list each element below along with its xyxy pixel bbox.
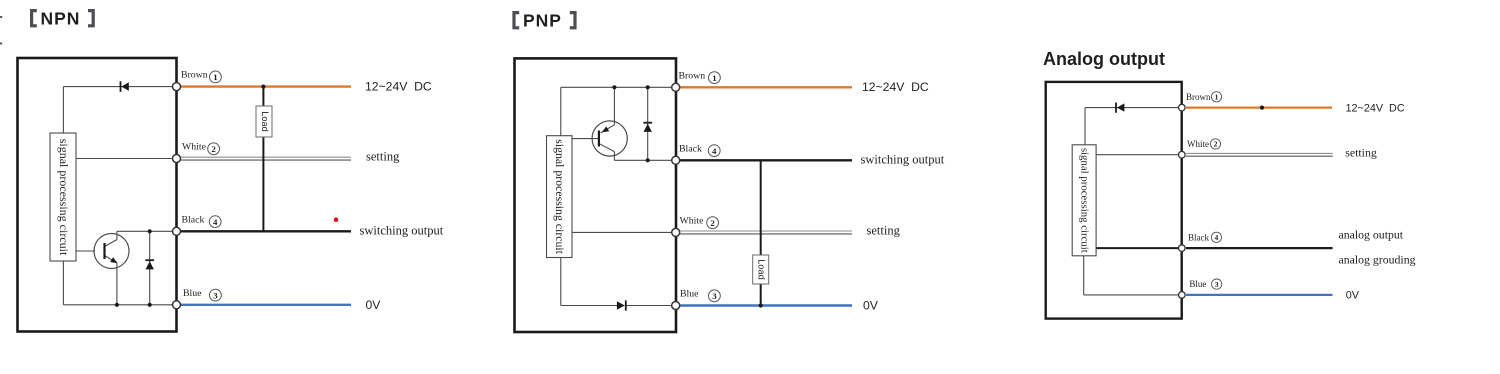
svg-text:0V: 0V — [863, 299, 879, 313]
svg-text:1: 1 — [213, 72, 217, 82]
svg-text:3: 3 — [1215, 280, 1219, 289]
svg-text:Black: Black — [182, 214, 205, 225]
svg-text:signal processing circuit: signal processing circuit — [1078, 148, 1090, 253]
svg-text:1: 1 — [1215, 93, 1219, 102]
svg-text:Black: Black — [1188, 232, 1209, 242]
svg-text:0V: 0V — [366, 298, 382, 312]
svg-text:Brown: Brown — [679, 70, 706, 81]
svg-text:setting: setting — [366, 150, 400, 164]
svg-text:Blue: Blue — [680, 289, 699, 300]
svg-text:NPN: NPN — [41, 9, 81, 29]
svg-text:1: 1 — [712, 73, 716, 83]
svg-text:12~24V DC: 12~24V DC — [365, 79, 432, 93]
svg-text:setting: setting — [867, 224, 901, 238]
svg-text:4: 4 — [712, 146, 717, 156]
svg-text:Load: Load — [260, 111, 270, 131]
svg-text:setting: setting — [1345, 145, 1377, 159]
svg-text:Black: Black — [679, 143, 702, 154]
svg-text:switching output: switching output — [861, 153, 945, 167]
svg-text:12~24V DC: 12~24V DC — [862, 80, 929, 94]
svg-text:2: 2 — [211, 144, 216, 154]
svg-text:2: 2 — [1214, 140, 1218, 149]
svg-text:12~24V DC: 12~24V DC — [1346, 102, 1405, 114]
svg-text:switching output: switching output — [360, 224, 444, 238]
svg-text:4: 4 — [1215, 233, 1219, 242]
svg-text:White: White — [182, 142, 207, 153]
svg-text:signal processing circuit: signal processing circuit — [553, 139, 567, 254]
svg-text:Blue: Blue — [183, 288, 202, 299]
svg-text:Blue: Blue — [1189, 279, 1206, 289]
svg-text:3: 3 — [213, 290, 218, 300]
svg-text:analog output: analog output — [1339, 228, 1404, 242]
svg-text:Load: Load — [757, 259, 767, 279]
svg-text:Brown: Brown — [1186, 92, 1211, 102]
svg-text:0V: 0V — [1346, 290, 1360, 302]
svg-text:White: White — [1187, 139, 1209, 149]
svg-text:analog grouding: analog grouding — [1339, 253, 1416, 267]
svg-text:Analog output: Analog output — [1043, 49, 1165, 69]
svg-text:3: 3 — [712, 291, 717, 301]
svg-text:Brown: Brown — [181, 70, 208, 81]
svg-text:signal processing circuit: signal processing circuit — [57, 139, 71, 256]
svg-text:2: 2 — [710, 218, 715, 228]
svg-text:White: White — [680, 215, 705, 226]
svg-text:4: 4 — [213, 217, 218, 227]
svg-text:PNP: PNP — [523, 11, 562, 31]
